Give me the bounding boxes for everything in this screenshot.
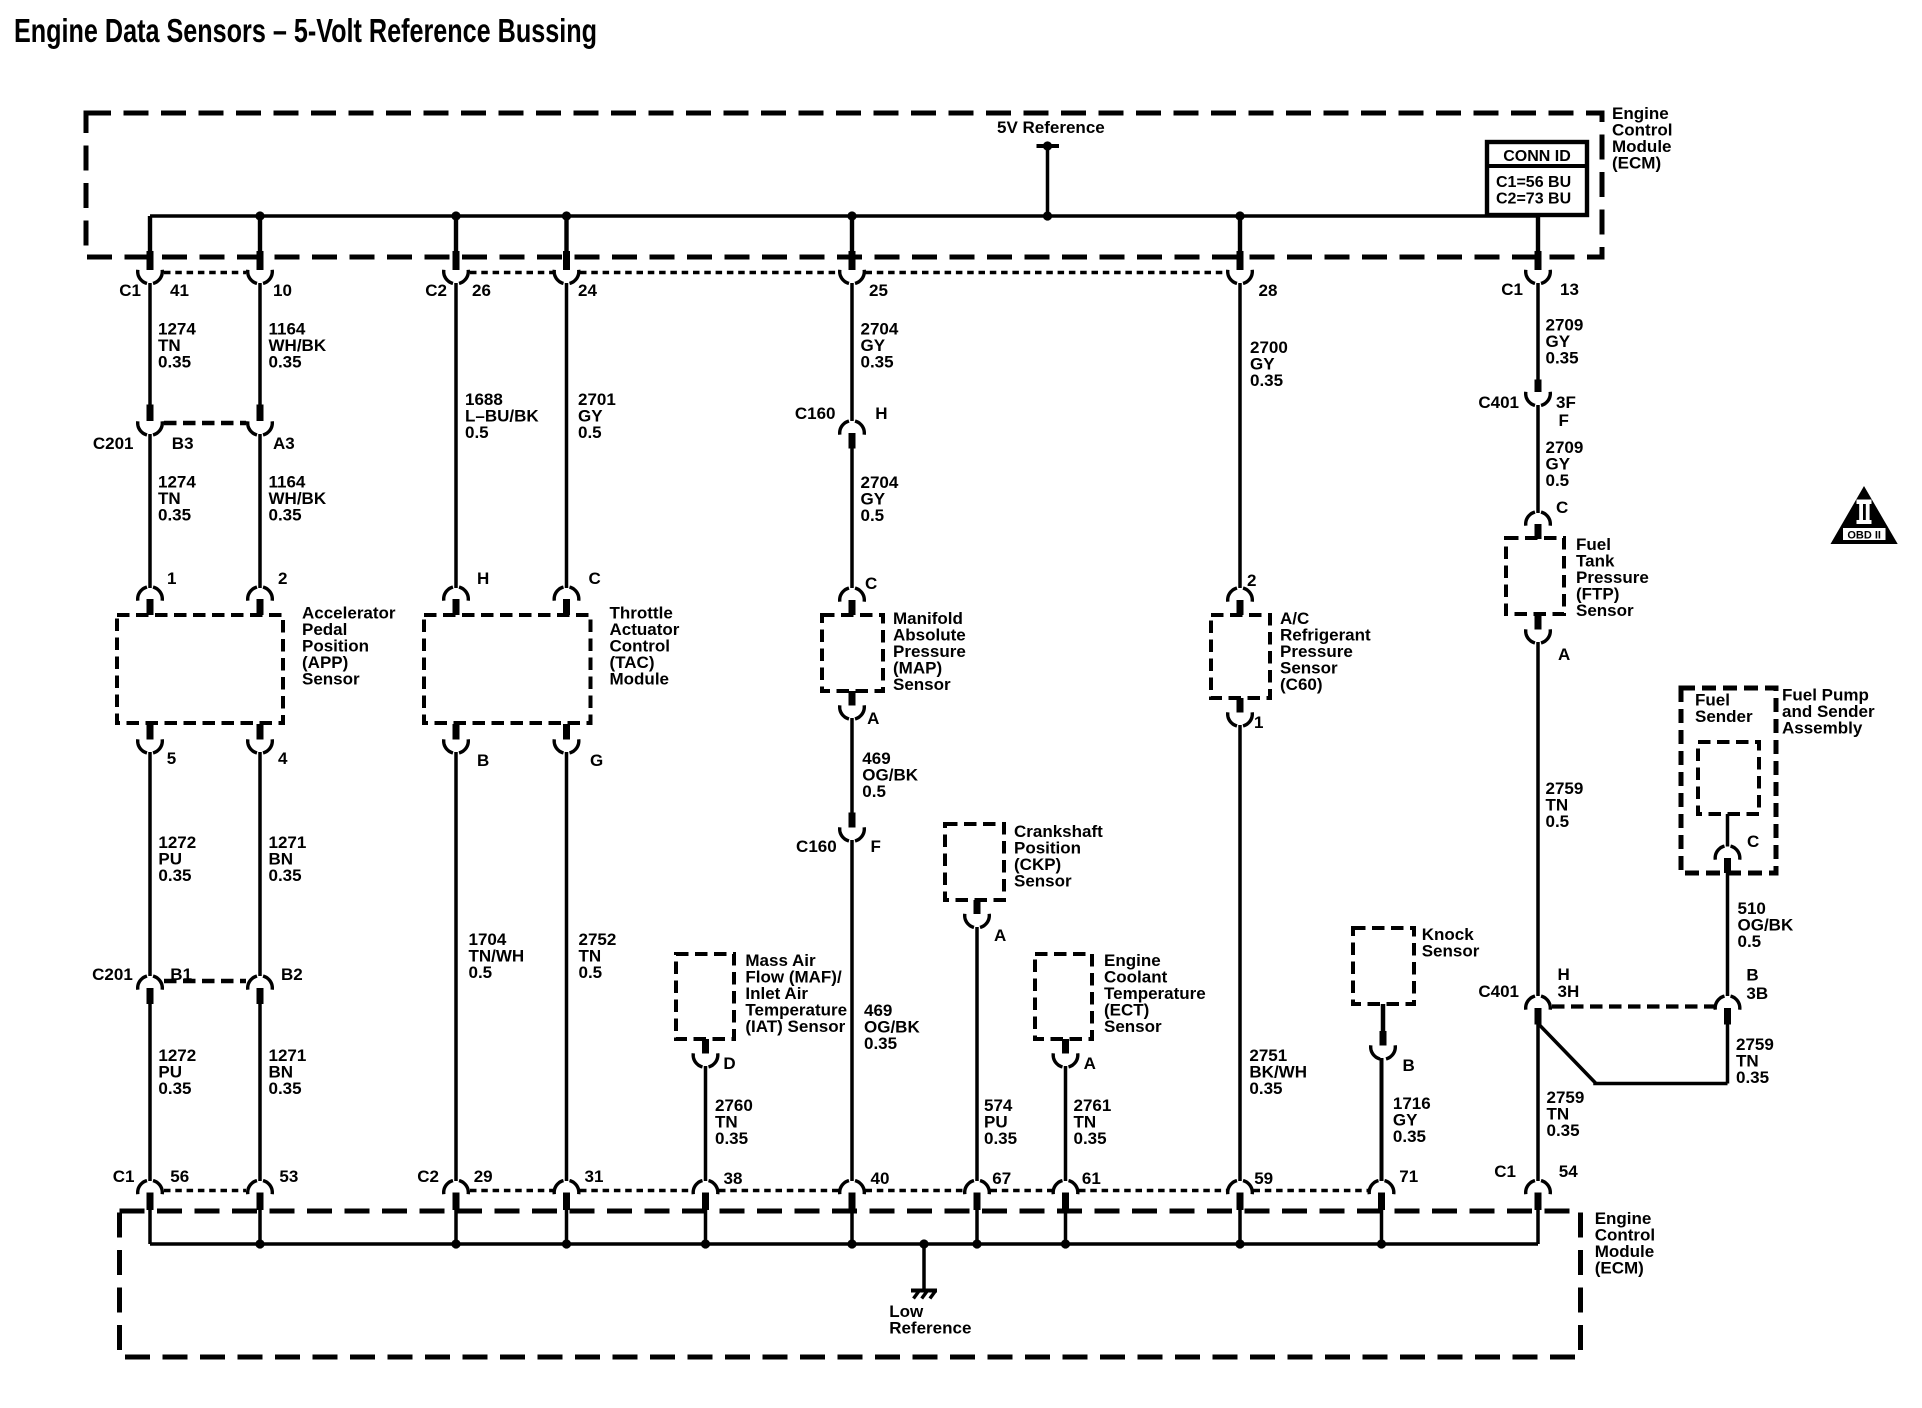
wire 2759 TN (FTP A to C401-H) bbox=[1536, 642, 1540, 996]
connector pin C2-31 bbox=[554, 1181, 563, 1195]
svg-text:C2=73 BU: C2=73 BU bbox=[1496, 191, 1571, 208]
Throttle Actuator Control module dashed box bbox=[424, 615, 591, 723]
connector dashed link C2 25-28 bbox=[866, 271, 1227, 275]
connector dashed link C2 24-25 bbox=[580, 271, 839, 275]
junction dot on bus at pin 26 column bbox=[451, 211, 460, 220]
svg-text:Sensor: Sensor bbox=[1014, 872, 1072, 891]
svg-text:2: 2 bbox=[1247, 571, 1256, 590]
svg-text:C1: C1 bbox=[113, 1167, 135, 1186]
svg-text:67: 67 bbox=[992, 1169, 1011, 1188]
svg-text:0.5: 0.5 bbox=[861, 506, 885, 525]
junction dot on low ref bus at pin 61 column bbox=[1061, 1239, 1070, 1248]
svg-text:(C60): (C60) bbox=[1280, 675, 1323, 694]
svg-text:C401: C401 bbox=[1478, 393, 1519, 412]
svg-text:0.35: 0.35 bbox=[158, 866, 191, 885]
svg-text:29: 29 bbox=[474, 1167, 493, 1186]
connector MAP pin C bbox=[840, 588, 849, 602]
svg-text:0.35: 0.35 bbox=[861, 353, 894, 372]
svg-text:A: A bbox=[867, 709, 879, 728]
svg-text:53: 53 bbox=[279, 1167, 298, 1186]
wire 1274 TN (C201-B3 to APP pin 1) bbox=[148, 434, 152, 588]
connector APP pin 4 bbox=[257, 724, 264, 740]
svg-text:C201: C201 bbox=[92, 965, 133, 984]
junction dot on low ref bus at ground stem bbox=[919, 1239, 928, 1248]
svg-text:B3: B3 bbox=[172, 434, 194, 453]
Fuel Sender inner dashed box bbox=[1698, 742, 1759, 814]
Fuel Tank Pressure sensor dashed box bbox=[1506, 538, 1564, 614]
wire 574 PU (CKP A to ECM pin 67) bbox=[975, 927, 979, 1181]
svg-text:0.5: 0.5 bbox=[1738, 932, 1762, 951]
connector pin C2-67 bbox=[965, 1181, 974, 1195]
svg-text:B2: B2 bbox=[281, 965, 303, 984]
connector APP pin 2 bbox=[248, 587, 257, 601]
svg-text:(ECM): (ECM) bbox=[1612, 154, 1661, 173]
svg-text:C: C bbox=[865, 574, 877, 593]
svg-text:0.35: 0.35 bbox=[1074, 1129, 1107, 1148]
connector TAC pin C bbox=[554, 587, 563, 601]
wire 2701 GY (pin 24 to TAC C) bbox=[565, 283, 569, 588]
svg-text:26: 26 bbox=[472, 281, 491, 300]
svg-text:(IAT) Sensor: (IAT) Sensor bbox=[745, 1017, 845, 1036]
svg-text:C1: C1 bbox=[119, 281, 141, 300]
wire knock sensor stub bbox=[1381, 1004, 1386, 1032]
connector APP pin 5 bbox=[147, 724, 154, 740]
Crankshaft Position sensor dashed box bbox=[945, 824, 1004, 900]
svg-text:0.5: 0.5 bbox=[1546, 812, 1570, 831]
connector MAP pin A bbox=[849, 691, 856, 706]
Knock Sensor dashed box bbox=[1353, 928, 1414, 1004]
wire 1164 WH/BK (C201-A3 to APP pin 2) bbox=[258, 434, 262, 588]
svg-text:1: 1 bbox=[1254, 713, 1263, 732]
connector C160-H bbox=[840, 421, 849, 435]
connector TAC pin B bbox=[453, 724, 460, 740]
svg-text:C1: C1 bbox=[1501, 280, 1523, 299]
svg-text:3H: 3H bbox=[1558, 982, 1580, 1001]
connector C401-3H (H) bbox=[1526, 996, 1535, 1010]
connector CKP pin A bbox=[974, 900, 981, 914]
svg-text:F: F bbox=[1559, 411, 1569, 430]
wire 2704 GY (pin 25 to C160-H) bbox=[850, 283, 854, 421]
connector knock sensor pin B bbox=[1380, 1031, 1387, 1046]
connector C160-F bbox=[849, 813, 856, 828]
connector pin C1-53 bbox=[248, 1181, 257, 1195]
junction dot on low ref bus at pin 38 column bbox=[701, 1239, 710, 1248]
wire 2759 TN (C401-3B drop) bbox=[1726, 1025, 1730, 1084]
svg-text:59: 59 bbox=[1254, 1169, 1273, 1188]
connector dashed link C2 29-71 bbox=[470, 1189, 553, 1193]
svg-text:0.5: 0.5 bbox=[578, 423, 602, 442]
svg-text:31: 31 bbox=[585, 1167, 604, 1186]
svg-text:0.35: 0.35 bbox=[269, 506, 302, 525]
junction dot on bus at pin 25 column bbox=[847, 211, 856, 220]
wire fuel sender output bbox=[1726, 814, 1730, 847]
connector TAC pin G bbox=[563, 724, 570, 740]
wire 2759 TN (C401-H to ECM pin 54) bbox=[1536, 1025, 1540, 1182]
svg-text:C: C bbox=[1556, 498, 1568, 517]
junction dot on low ref bus at pin 71 column bbox=[1377, 1239, 1386, 1248]
connector pin C1-41 (ECM 5V ref) bbox=[148, 216, 152, 253]
svg-text:4: 4 bbox=[278, 749, 288, 768]
svg-text:C1=56 BU: C1=56 BU bbox=[1496, 174, 1571, 191]
junction dot on low ref bus at pin 29 column bbox=[451, 1239, 460, 1248]
connector dashed link C201 B3-A3 bbox=[164, 421, 246, 425]
svg-text:Sender: Sender bbox=[1695, 707, 1753, 726]
svg-text:24: 24 bbox=[578, 281, 597, 300]
svg-text:Sensor: Sensor bbox=[302, 669, 360, 688]
svg-text:0.35: 0.35 bbox=[715, 1129, 748, 1148]
wire 1704 TN/WH (TAC B to ECM pin 29) bbox=[454, 752, 458, 1181]
Mass Air Flow / IAT sensor dashed box bbox=[676, 954, 734, 1039]
connector pin C2-26 bbox=[454, 216, 458, 253]
svg-text:54: 54 bbox=[1559, 1162, 1578, 1181]
connector C201-B1 bbox=[138, 976, 147, 990]
svg-text:3B: 3B bbox=[1746, 984, 1768, 1003]
connector dashed link C1 56-53 bbox=[164, 1189, 246, 1193]
junction dot on low ref bus at pin 31 column bbox=[562, 1239, 571, 1248]
svg-text:Reference: Reference bbox=[889, 1319, 971, 1338]
svg-text:C401: C401 bbox=[1478, 982, 1519, 1001]
junction dot on bus at pin 10 column bbox=[255, 211, 264, 220]
OBD II triangle symbol bbox=[1831, 486, 1898, 544]
svg-text:D: D bbox=[723, 1054, 735, 1073]
svg-text:A: A bbox=[1084, 1054, 1096, 1073]
connector pin C2-29 bbox=[444, 1181, 453, 1195]
svg-text:0.35: 0.35 bbox=[1250, 371, 1283, 390]
svg-text:10: 10 bbox=[273, 281, 292, 300]
Fuel Pump and Sender Assembly dashed box bbox=[1681, 688, 1776, 873]
svg-text:C1: C1 bbox=[1494, 1162, 1516, 1181]
connector pin C1-54 bbox=[1526, 1181, 1535, 1195]
svg-text:0.35: 0.35 bbox=[864, 1034, 897, 1053]
connector ECT pin A bbox=[1062, 1039, 1069, 1054]
svg-text:0.35: 0.35 bbox=[269, 353, 302, 372]
svg-text:(ECM): (ECM) bbox=[1595, 1259, 1644, 1278]
svg-text:0.35: 0.35 bbox=[158, 1079, 191, 1098]
svg-text:CONN ID: CONN ID bbox=[1503, 148, 1571, 165]
svg-text:H: H bbox=[875, 404, 887, 423]
connector C201-B2 bbox=[248, 976, 257, 990]
svg-text:71: 71 bbox=[1399, 1167, 1418, 1186]
svg-text:A: A bbox=[994, 926, 1006, 945]
wire 469 OG/BK (C160-F to ECM pin 40) bbox=[850, 840, 854, 1181]
wire 1272 PU (C201-B1 to ECM pin 56) bbox=[148, 1004, 152, 1181]
wire 2704 GY (C160-H to MAP C) bbox=[850, 448, 854, 588]
connector pin C1-13 bbox=[1536, 216, 1540, 253]
svg-text:0.5: 0.5 bbox=[579, 963, 603, 982]
svg-text:0.5: 0.5 bbox=[862, 782, 886, 801]
connector TAC pin H bbox=[444, 587, 453, 601]
svg-text:56: 56 bbox=[170, 1167, 189, 1186]
svg-text:61: 61 bbox=[1082, 1169, 1101, 1188]
svg-text:C: C bbox=[1747, 832, 1759, 851]
connector pin C2-24 bbox=[564, 216, 568, 253]
node: 5V Reference terminal (T-bar and dot) bbox=[1037, 144, 1060, 148]
junction dot on bus at 5V reference bbox=[1043, 211, 1052, 220]
Accelerator Pedal Position sensor dashed box bbox=[117, 615, 283, 723]
svg-text:5: 5 bbox=[167, 749, 176, 768]
junction dot on low ref bus at pin 53 column bbox=[255, 1239, 264, 1248]
junction dot on low ref bus at pin 67 column bbox=[972, 1239, 981, 1248]
connector pin C2-71 bbox=[1369, 1181, 1378, 1195]
wire 2760 TN (MAF D to ECM pin 38) bbox=[704, 1066, 708, 1181]
connector C401-3B (B) bbox=[1715, 996, 1724, 1010]
wire 2751 BK/WH (A/C pin 1 to ECM pin 59) bbox=[1238, 725, 1242, 1181]
wire 1688 L-BU/BK (pin 26 to TAC H) bbox=[454, 283, 458, 588]
svg-text:B: B bbox=[1746, 966, 1758, 985]
svg-text:A3: A3 bbox=[273, 434, 295, 453]
svg-text:Module: Module bbox=[610, 669, 670, 688]
svg-text:5V Reference: 5V Reference bbox=[997, 118, 1105, 137]
svg-text:0.35: 0.35 bbox=[1546, 349, 1579, 368]
svg-text:0.35: 0.35 bbox=[269, 866, 302, 885]
ground symbol (low reference) bbox=[922, 1244, 926, 1290]
svg-text:C2: C2 bbox=[417, 1167, 439, 1186]
svg-text:Sensor: Sensor bbox=[1104, 1017, 1162, 1036]
connector dashed link C2 26-24 bbox=[470, 271, 553, 275]
wire: 5V reference bus bbox=[150, 214, 1538, 218]
ECM top module dashed box bbox=[86, 113, 1602, 257]
connector A/C sensor pin 1 bbox=[1237, 698, 1244, 713]
connector dashed link C1 41-10 bbox=[164, 271, 246, 275]
connector pin C1-56 bbox=[138, 1181, 147, 1195]
CONN ID table bbox=[1487, 142, 1587, 215]
svg-text:25: 25 bbox=[869, 281, 888, 300]
connector pin C (fuel sender) bbox=[1715, 846, 1724, 860]
svg-text:0.35: 0.35 bbox=[1249, 1079, 1282, 1098]
connector MAF pin D bbox=[702, 1039, 709, 1054]
svg-text:Assembly: Assembly bbox=[1782, 719, 1863, 738]
svg-text:OBD II: OBD II bbox=[1847, 530, 1881, 542]
svg-text:0.35: 0.35 bbox=[269, 1079, 302, 1098]
svg-text:40: 40 bbox=[871, 1169, 890, 1188]
connector A/C sensor pin 2 bbox=[1228, 588, 1237, 602]
wire 2761 TN (ECT A to ECM pin 61) bbox=[1064, 1066, 1068, 1181]
wire 469 OG/BK (MAP A to C160-F) bbox=[850, 718, 854, 813]
wire 510 OG/BK (fuel sender C to C401-3B) bbox=[1726, 873, 1730, 996]
connector pin C2-40 bbox=[840, 1181, 849, 1195]
junction dot on bus at pin 28 column bbox=[1235, 211, 1244, 220]
svg-text:C201: C201 bbox=[93, 434, 134, 453]
wire 1272 PU (APP 5 to C201-B1) bbox=[148, 752, 152, 976]
svg-text:H: H bbox=[477, 569, 489, 588]
wire 2709 GY (C401-3F to FTP C) bbox=[1536, 405, 1540, 513]
svg-text:28: 28 bbox=[1259, 281, 1278, 300]
wire 1164 WH/BK (pin 10 to C201-A3) bbox=[258, 283, 262, 405]
svg-text:B1: B1 bbox=[170, 965, 192, 984]
svg-text:38: 38 bbox=[724, 1169, 743, 1188]
svg-text:41: 41 bbox=[170, 281, 189, 300]
connector pin C2-28 bbox=[1238, 216, 1242, 253]
wire 2752 TN (TAC G to ECM pin 31) bbox=[565, 752, 569, 1181]
svg-text:0.35: 0.35 bbox=[1547, 1121, 1580, 1140]
wire 2709 GY (pin 13 to C401-3F) bbox=[1536, 283, 1540, 380]
connector pin C2-25 bbox=[850, 216, 854, 253]
junction dot on bus at pin 24 column bbox=[562, 211, 571, 220]
connector APP pin 1 bbox=[138, 587, 147, 601]
wire 1271 BN (APP 4 to C201-B2) bbox=[258, 752, 262, 976]
connector pin C (FTP sensor) bbox=[1526, 512, 1535, 526]
connector pin C2-61 bbox=[1053, 1181, 1062, 1195]
svg-text:3F: 3F bbox=[1556, 393, 1576, 412]
wire 1716 GY (knock B to ECM pin 71) bbox=[1380, 1058, 1384, 1181]
svg-text:13: 13 bbox=[1560, 280, 1579, 299]
connector dashed link C401 3H-3B bbox=[1552, 1004, 1714, 1008]
svg-text:A: A bbox=[1558, 645, 1570, 664]
Engine Coolant Temperature sensor dashed box bbox=[1035, 954, 1092, 1039]
connector pin A (FTP sensor) bbox=[1535, 615, 1542, 630]
svg-text:B: B bbox=[1403, 1056, 1415, 1075]
connector dashed link C201 B1-B2 bbox=[164, 979, 246, 983]
svg-text:Sensor: Sensor bbox=[1422, 942, 1480, 961]
A/C Refrigerant Pressure sensor dashed box bbox=[1211, 615, 1270, 698]
connector pin C2-59 bbox=[1228, 1181, 1237, 1195]
svg-text:C160: C160 bbox=[795, 404, 836, 423]
svg-text:C: C bbox=[589, 569, 601, 588]
ECM bottom module dashed box bbox=[120, 1211, 1581, 1357]
svg-text:1: 1 bbox=[167, 569, 176, 588]
svg-text:Sensor: Sensor bbox=[893, 675, 951, 694]
junction dot on low ref bus at pin 40 column bbox=[847, 1239, 856, 1248]
svg-text:G: G bbox=[590, 751, 603, 770]
svg-text:0.35: 0.35 bbox=[1393, 1127, 1426, 1146]
connector C201-B3 bbox=[147, 405, 154, 422]
svg-text:C2: C2 bbox=[425, 281, 447, 300]
connector pin C2-38 bbox=[693, 1181, 702, 1195]
svg-text:0.5: 0.5 bbox=[469, 963, 493, 982]
svg-text:0.35: 0.35 bbox=[984, 1129, 1017, 1148]
wire: low reference bus bbox=[150, 1242, 1538, 1246]
wire 2700 GY (pin 28 to A/C sensor pin 2) bbox=[1238, 283, 1242, 588]
svg-text:Engine Data Sensors – 5-Volt R: Engine Data Sensors – 5-Volt Reference B… bbox=[14, 12, 597, 49]
svg-text:C160: C160 bbox=[796, 837, 837, 856]
junction dot on low ref bus at pin 59 column bbox=[1235, 1239, 1244, 1248]
svg-text:0.35: 0.35 bbox=[158, 353, 191, 372]
connector pin C1-10 bbox=[258, 216, 262, 253]
svg-text:0.5: 0.5 bbox=[1546, 471, 1570, 490]
svg-text:2: 2 bbox=[278, 569, 287, 588]
svg-text:Sensor: Sensor bbox=[1576, 601, 1634, 620]
connector C201-A3 bbox=[257, 405, 264, 422]
wire 1274 TN (pin 41 to C201-B3) bbox=[148, 283, 152, 405]
wire 2759 TN branch (C401-H diagonal) bbox=[1539, 1025, 1728, 1084]
wire 1271 BN (C201-B2 to ECM pin 53) bbox=[258, 1004, 262, 1181]
svg-text:B: B bbox=[477, 751, 489, 770]
svg-text:0.5: 0.5 bbox=[465, 423, 489, 442]
Manifold Absolute Pressure sensor dashed box bbox=[822, 615, 883, 691]
connector C401-3F bbox=[1535, 380, 1542, 393]
svg-text:F: F bbox=[871, 837, 881, 856]
svg-text:0.35: 0.35 bbox=[1736, 1068, 1769, 1087]
svg-text:0.35: 0.35 bbox=[158, 506, 191, 525]
